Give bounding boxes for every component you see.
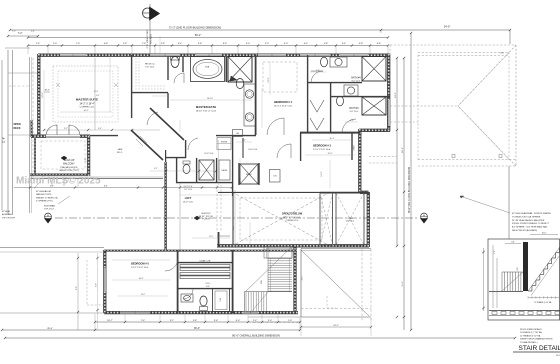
mls watermark xyxy=(16,176,101,187)
svg-text:5'-4": 5'-4" xyxy=(304,43,309,45)
lower left roof edge lines xyxy=(0,248,104,314)
svg-text:PRE-MFG ROOF: PRE-MFG ROOF xyxy=(60,167,78,169)
svg-text:COFFER CLG.: COFFER CLG. xyxy=(286,220,299,222)
svg-text:42" HIGH ALUM.: 42" HIGH ALUM. xyxy=(36,190,51,193)
svg-text:21'-6": 21'-6" xyxy=(3,137,6,143)
svg-text:3'-0": 3'-0" xyxy=(268,320,273,322)
svg-text:8'-0": 8'-0" xyxy=(206,286,210,288)
svg-text:5'-2": 5'-2" xyxy=(242,140,246,142)
top dimension lines xyxy=(9,25,511,54)
svg-text:TUB: TUB xyxy=(205,67,210,69)
svg-text:FLAT SEAM: FLAT SEAM xyxy=(44,205,55,208)
svg-text:13'-2": 13'-2" xyxy=(395,92,397,98)
svg-text:BATH #4: BATH #4 xyxy=(351,77,361,80)
svg-text:10'-0" CLG.: 10'-0" CLG. xyxy=(204,153,214,155)
svg-text:W.I.C.: W.I.C. xyxy=(117,152,123,154)
section cut line A-A xyxy=(45,213,428,223)
roof eave dashes at mid right xyxy=(369,157,397,164)
svg-text:4'-0" X 7'-0": 4'-0" X 7'-0" xyxy=(183,186,193,188)
svg-text:SPACED TO REJECT A: SPACED TO REJECT A xyxy=(36,196,58,199)
svg-text:BEDROOM # 4: BEDROOM # 4 xyxy=(274,100,292,104)
svg-text:TO FAB./INSTALL.): TO FAB./INSTALL.) xyxy=(520,341,538,344)
svg-text:12'-0": 12'-0" xyxy=(268,77,270,82)
window openings in walls xyxy=(60,54,390,126)
svg-text:7'-0" CLG.: 7'-0" CLG. xyxy=(184,189,193,191)
svg-text:31'-8": 31'-8" xyxy=(402,281,404,286)
svg-text:14'-0": 14'-0" xyxy=(138,278,143,280)
master suite room label and coffer ceiling xyxy=(44,58,118,130)
svg-text:MASTER SUITE: MASTER SUITE xyxy=(76,98,98,102)
svg-text:4'-0": 4'-0" xyxy=(246,43,251,45)
svg-text:4'-8": 4'-8" xyxy=(324,43,329,45)
svg-text:BUILT-UP: BUILT-UP xyxy=(202,213,212,215)
svg-text:MASTER BATH: MASTER BATH xyxy=(196,105,216,109)
bath 4 xyxy=(307,57,386,84)
svg-text:14'-0": 14'-0" xyxy=(321,171,323,176)
her wic angled corridor xyxy=(117,108,184,160)
svg-text:14'-2": 14'-2" xyxy=(83,110,88,112)
svg-text:LOFT: LOFT xyxy=(185,197,192,200)
bath 3 and closets xyxy=(310,83,390,133)
svg-text:CLO.: CLO. xyxy=(205,283,210,285)
svg-text:50'-2": 50'-2" xyxy=(195,33,202,37)
svg-text:5'-8": 5'-8" xyxy=(198,43,203,45)
svg-text:4'-6": 4'-6" xyxy=(98,128,102,130)
svg-text:16'-0": 16'-0" xyxy=(94,91,99,93)
svg-text:24'-2": 24'-2" xyxy=(333,325,339,327)
bedroom 5 xyxy=(131,250,178,313)
bottom dimension lines xyxy=(1,253,516,339)
svg-text:TOP 4 S-2": TOP 4 S-2" xyxy=(44,209,54,211)
svg-text:8'-0": 8'-0" xyxy=(76,286,78,290)
svg-text:RAILING POSTS: RAILING POSTS xyxy=(36,193,52,196)
svg-text:8'-0": 8'-0" xyxy=(96,95,100,97)
svg-text:LAUN.: LAUN. xyxy=(222,169,228,172)
svg-text:FLOOR: FLOOR xyxy=(203,219,210,221)
svg-text:LINEN: LINEN xyxy=(354,145,356,151)
svg-text:12'-0": 12'-0" xyxy=(327,153,332,155)
svg-text:12'-4" CLG.: 12'-4" CLG. xyxy=(346,221,355,223)
svg-text:10'-0": 10'-0" xyxy=(542,232,547,234)
svg-text:5'-0": 5'-0" xyxy=(265,43,270,45)
svg-text:9'-0" CLG.: 9'-0" CLG. xyxy=(352,80,361,82)
svg-text:12'-0" X 9'-0" CLG.: 12'-0" X 9'-0" CLG. xyxy=(313,149,331,151)
svg-text:1'-4": 1'-4" xyxy=(36,43,41,45)
svg-text:13'-2" X 9'-0" CLG.: 13'-2" X 9'-0" CLG. xyxy=(131,267,149,269)
svg-text:7'-4": 7'-4" xyxy=(494,250,496,254)
svg-text:7'-2": 7'-2" xyxy=(18,32,23,35)
svg-text:OPEN: OPEN xyxy=(13,123,20,126)
main staircase xyxy=(245,246,293,311)
svg-text:7'-6": 7'-6" xyxy=(142,43,147,45)
exterior walls xyxy=(31,54,390,314)
svg-text:42" HIGH GUARDRAIL. PICKETS SP: 42" HIGH GUARDRAIL. PICKETS SPACED xyxy=(512,212,552,215)
svg-text:76'-6" 2ND FLOOR BUILDING DIME: 76'-6" 2ND FLOOR BUILDING DIMENSION xyxy=(408,166,411,213)
svg-text:FLR. BLDG: FLR. BLDG xyxy=(151,33,153,44)
svg-text:ELEV.: ELEV. xyxy=(246,174,252,176)
svg-text:10'-0" CLG.: 10'-0" CLG. xyxy=(248,149,258,151)
svg-text:(VERIFY SHOP DRAWINGS PRIOR: (VERIFY SHOP DRAWINGS PRIOR xyxy=(520,338,553,341)
assorted interior dimensions xyxy=(42,36,404,296)
svg-text:STAIR DETAIL: STAIR DETAIL xyxy=(519,345,560,352)
stair detail notes and title xyxy=(513,328,560,357)
svg-text:TO REJECT A 4" DIA. SPHERE.: TO REJECT A 4" DIA. SPHERE. xyxy=(512,215,541,218)
loft and built-in desk xyxy=(180,140,235,250)
bedroom 3 xyxy=(300,119,360,160)
svg-text:11 RISERS @ 7 7/8" EA.: 11 RISERS @ 7 7/8" EA. xyxy=(520,331,543,334)
stair detail drawing xyxy=(482,232,560,320)
svg-text:HIGH PITCH (TYP.): HIGH PITCH (TYP.) xyxy=(59,170,79,172)
svg-text:16'-1": 16'-1" xyxy=(402,147,404,153)
svg-text:HIS W.I.C.: HIS W.I.C. xyxy=(145,64,156,66)
railing annotation xyxy=(460,196,552,232)
svg-text:COMM. CTR.: COMM. CTR. xyxy=(199,261,211,263)
svg-text:4'-2": 4'-2" xyxy=(154,168,158,170)
svg-text:STILES. PICKETS SPACED TO REJE: STILES. PICKETS SPACED TO REJECT xyxy=(512,222,550,225)
bath 5 fixtures xyxy=(178,289,232,312)
svg-text:18'-4": 18'-4" xyxy=(44,90,49,92)
svg-text:10 TREADS @ 10" EA.: 10 TREADS @ 10" EA. xyxy=(534,301,552,304)
svg-text:7'-4": 7'-4" xyxy=(141,320,146,322)
master suite balcony doors xyxy=(46,125,80,137)
left dimension and deck edge lines xyxy=(2,31,39,216)
svg-text:8'-4": 8'-4" xyxy=(104,185,108,187)
svg-text:9'-2": 9'-2" xyxy=(64,128,68,130)
svg-text:2'-8": 2'-8" xyxy=(123,43,128,45)
svg-text:16'-10": 16'-10" xyxy=(207,98,213,100)
balcony xyxy=(14,136,233,189)
svg-text:9'-4": 9'-4" xyxy=(223,43,228,45)
svg-text:9'-0" CLG.: 9'-0" CLG. xyxy=(350,111,359,113)
svg-text:42" HIGH: 42" HIGH xyxy=(2,211,11,213)
svg-text:NO SCALE: NO SCALE xyxy=(556,354,560,357)
svg-text:18'-4": 18'-4" xyxy=(42,92,44,97)
svg-text:10'-0" CLG.: 10'-0" CLG. xyxy=(183,202,194,204)
svg-text:4'-8": 4'-8" xyxy=(104,43,109,45)
svg-text:24'-2": 24'-2" xyxy=(302,275,304,280)
svg-text:36'-4": 36'-4" xyxy=(194,327,200,330)
svg-text:JBC: JBC xyxy=(500,53,504,55)
right dimension lines xyxy=(395,30,510,331)
svg-text:4'-0": 4'-0" xyxy=(350,120,354,122)
svg-text:AT 36" TOP OF: AT 36" TOP OF xyxy=(199,215,214,218)
svg-text:71'-3" (2ND FLOOR BUILDING DIM: 71'-3" (2ND FLOOR BUILDING DIMENSION) xyxy=(169,26,221,30)
svg-text:Miami MLS© 2025: Miami MLS© 2025 xyxy=(16,176,101,187)
master shower xyxy=(226,57,252,83)
open to below xyxy=(218,192,369,246)
svg-text:3'-8": 3'-8" xyxy=(193,320,198,322)
svg-text:4'-0": 4'-0" xyxy=(284,43,289,45)
svg-text:A 4" SPHERE. 1 3/4" HIGH HAND: A 4" SPHERE. 1 3/4" HIGH HAND RAIL xyxy=(512,226,548,229)
svg-text:4'-8": 4'-8" xyxy=(511,241,515,243)
svg-text:BATH #3: BATH #3 xyxy=(349,107,359,110)
svg-text:13'-2": 13'-2" xyxy=(141,294,146,296)
bedroom 4 xyxy=(263,55,308,135)
hip roof outline dashed xyxy=(390,45,516,166)
svg-text:28'-4": 28'-4" xyxy=(47,328,53,330)
svg-text:TOP OF ROOF: TOP OF ROOF xyxy=(2,217,16,219)
left annotations xyxy=(2,180,70,219)
svg-text:7'-2": 7'-2" xyxy=(12,31,16,33)
svg-text:7'-0": 7'-0" xyxy=(76,43,81,45)
svg-text:2'-0": 2'-0" xyxy=(53,43,58,45)
master tub xyxy=(191,57,225,82)
svg-text:COFFER CLG.: COFFER CLG. xyxy=(80,107,95,109)
svg-text:5'-0": 5'-0" xyxy=(85,158,87,162)
svg-text:2'-4": 2'-4" xyxy=(253,320,258,322)
svg-text:12'-0" X 11'-0" CLG.: 12'-0" X 11'-0" CLG. xyxy=(274,105,293,107)
svg-text:2'-8": 2'-8" xyxy=(161,43,166,45)
svg-text:9'-0" CLG.: 9'-0" CLG. xyxy=(145,67,155,69)
svg-text:5'-4": 5'-4" xyxy=(31,31,35,33)
svg-text:16'-10" X 11'-0" CLG.: 16'-10" X 11'-0" CLG. xyxy=(196,111,217,113)
svg-text:24'-0": 24'-0" xyxy=(444,25,451,29)
closet and comm center xyxy=(178,250,233,313)
svg-text:BALCONY: BALCONY xyxy=(63,163,75,166)
master bath vanity sinks and label xyxy=(196,55,256,135)
open shafts with X bracing xyxy=(320,193,364,245)
svg-text:1'-0": 1'-0" xyxy=(288,320,293,322)
svg-text:2 TO VIEW STORY: 2 TO VIEW STORY xyxy=(147,29,149,49)
svg-text:9'-0": 9'-0" xyxy=(96,283,98,287)
svg-text:BEDROOM # 3: BEDROOM # 3 xyxy=(313,144,331,148)
open deck label xyxy=(13,123,20,130)
svg-text:5'-0": 5'-0" xyxy=(316,70,320,72)
wc shower laundry xyxy=(183,138,230,191)
windows in bottom wall xyxy=(104,268,258,314)
svg-text:3'-4": 3'-4" xyxy=(342,43,347,45)
svg-text:16'-1": 16'-1" xyxy=(329,138,334,140)
svg-text:18'-7": 18'-7" xyxy=(107,320,113,322)
svg-text:SHOES: SHOES xyxy=(221,142,228,144)
svg-text:HER: HER xyxy=(118,149,123,151)
svg-text:BEDROOM # 5: BEDROOM # 5 xyxy=(131,262,149,266)
svg-text:4'-6": 4'-6" xyxy=(377,43,382,45)
svg-text:ALUM RAIL: ALUM RAIL xyxy=(2,213,12,216)
svg-text:3'-1": 3'-1" xyxy=(170,320,175,322)
svg-text:3'-6": 3'-6" xyxy=(214,320,219,322)
svg-text:10 TREADS @ 10" EA.: 10 TREADS @ 10" EA. xyxy=(520,334,541,337)
center hall partition walls xyxy=(90,93,301,250)
svg-text:14'-2" X 18'-4": 14'-2" X 18'-4" xyxy=(79,102,94,105)
svg-text:4'-0": 4'-0" xyxy=(236,320,241,322)
north arrow xyxy=(143,4,160,56)
svg-text:11'-0": 11'-0" xyxy=(209,236,214,238)
svg-text:4" SPHERE (TYP.): 4" SPHERE (TYP.) xyxy=(36,201,53,203)
his wic and water closet xyxy=(131,55,184,118)
svg-text:WOOD STAIR DETAILS:: WOOD STAIR DETAILS: xyxy=(520,328,542,331)
lower roof with diagonal xyxy=(248,249,372,337)
svg-text:80'-0" OVERALL BUILDING DIMENS: 80'-0" OVERALL BUILDING DIMENSION xyxy=(232,333,280,337)
svg-text:34"-38" HIGH RAILING. BALUSTER: 34"-38" HIGH RAILING. BALUSTER xyxy=(512,219,545,222)
svg-text:3'-4": 3'-4" xyxy=(178,43,183,45)
svg-text:DECK: DECK xyxy=(13,127,20,130)
elevator shaft xyxy=(239,163,280,185)
svg-text:3'-8": 3'-8" xyxy=(359,43,364,45)
svg-text:SELECTED BY (A/L/GARD): SELECTED BY (A/L/GARD) xyxy=(512,229,537,232)
svg-text:OPEN TO BELOW: OPEN TO BELOW xyxy=(282,213,303,216)
